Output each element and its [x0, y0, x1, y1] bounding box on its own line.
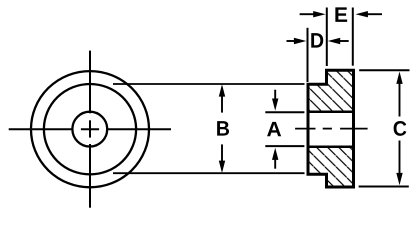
D left arrow (points right) [287, 40, 301, 42]
bore circle (dimension A) [72, 112, 107, 147]
horizontal centerline left segment [9, 128, 72, 130]
section centerline short dash [323, 128, 332, 130]
E right arrow (points left) [356, 11, 368, 17]
bore bottom edge [308, 145, 354, 148]
C top extension line [359, 69, 409, 71]
label E [335, 7, 347, 21]
A top extension line [265, 111, 304, 113]
A bottom arrow (points up) [272, 148, 278, 160]
vertical centerline bottom segment [89, 144, 91, 208]
A bottom extension line [265, 145, 304, 147]
E left arrow (points right) [300, 13, 315, 15]
dimension B top arrow [219, 84, 225, 96]
C bottom extension line [359, 186, 409, 188]
section outline [308, 70, 354, 187]
E left extension line [326, 8, 328, 67]
A top arrow (points down) [272, 99, 278, 111]
C top arrow [396, 72, 402, 84]
horizontal centerline right segment [107, 128, 171, 130]
section centerline long dash right [340, 128, 368, 130]
second circle (hub OD, dimension B) [44, 84, 136, 174]
hatch lower region [300, 140, 362, 195]
D left extension line [307, 28, 309, 82]
vertical center tick [89, 120, 91, 137]
dimension B bottom arrow [219, 161, 225, 173]
label A [267, 122, 281, 136]
bottom projection line (B bottom) [113, 172, 305, 174]
label D [311, 33, 323, 47]
E right extension line [352, 8, 354, 66]
D right arrow (points left) [328, 38, 340, 44]
section centerline long dash left [295, 128, 315, 130]
hatch upper region [300, 60, 362, 120]
label C [394, 121, 407, 136]
vertical centerline top segment [89, 51, 91, 114]
bore top edge [308, 110, 354, 113]
outer circle (flange OD) [31, 71, 149, 187]
C bottom arrow [396, 173, 402, 185]
horizontal center tick [81, 128, 99, 130]
label B [217, 121, 229, 135]
top projection line (B top) [113, 83, 305, 85]
